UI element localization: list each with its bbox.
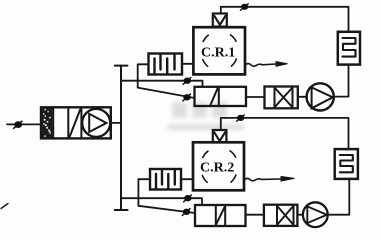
svg-text:C.R.2: C.R.2 bbox=[200, 161, 234, 176]
svg-text:C.R.1: C.R.1 bbox=[201, 46, 235, 61]
